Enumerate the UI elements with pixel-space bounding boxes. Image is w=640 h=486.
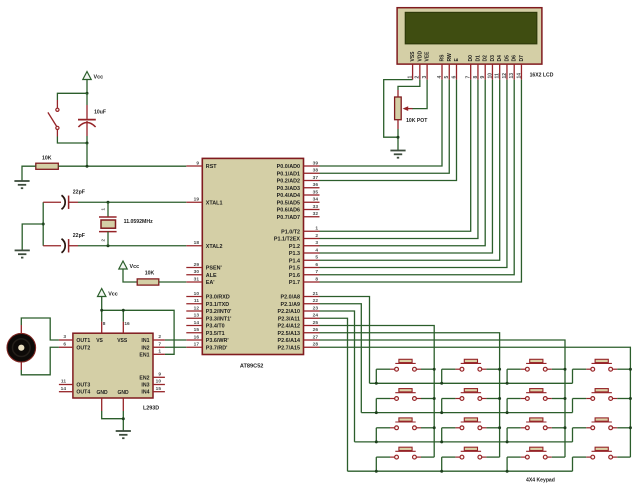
svg-text:P0.2/AD2: P0.2/AD2 (277, 179, 300, 185)
svg-text:Vcc: Vcc (94, 75, 104, 81)
svg-text:8: 8 (315, 276, 318, 282)
svg-text:6: 6 (315, 262, 318, 268)
svg-text:P2.4/A12: P2.4/A12 (278, 324, 300, 330)
svg-text:5: 5 (444, 76, 450, 79)
svg-text:23: 23 (313, 305, 319, 311)
svg-text:XTAL1: XTAL1 (206, 200, 223, 206)
svg-text:OUT2: OUT2 (76, 345, 90, 351)
svg-text:D2: D2 (483, 55, 489, 62)
svg-text:D7: D7 (519, 55, 525, 62)
svg-text:P1.0/T2: P1.0/T2 (281, 229, 300, 235)
svg-text:14: 14 (194, 320, 200, 326)
svg-text:P3.1/TXD: P3.1/TXD (206, 302, 229, 308)
svg-text:EN1: EN1 (139, 352, 149, 358)
svg-text:P2.2/A10: P2.2/A10 (278, 309, 300, 315)
svg-text:39: 39 (313, 160, 319, 166)
svg-text:10: 10 (194, 291, 200, 297)
svg-text:1: 1 (315, 226, 318, 232)
svg-text:IN4: IN4 (141, 390, 149, 396)
svg-text:11.0592MHz: 11.0592MHz (124, 219, 154, 225)
svg-text:10K: 10K (42, 156, 52, 162)
svg-text:VDD: VDD (417, 51, 423, 62)
svg-text:P3.4/T0: P3.4/T0 (206, 324, 225, 330)
svg-text:8: 8 (473, 76, 479, 79)
svg-text:P1.1/T2EX: P1.1/T2EX (274, 237, 300, 243)
svg-text:8: 8 (103, 321, 106, 327)
svg-text:P3.0/RXD: P3.0/RXD (206, 295, 230, 301)
svg-text:VSS: VSS (117, 338, 128, 344)
svg-text:D1: D1 (475, 55, 481, 62)
svg-text:12: 12 (502, 73, 508, 79)
svg-text:16X2 LCD: 16X2 LCD (530, 73, 554, 79)
svg-text:D6: D6 (512, 55, 518, 62)
svg-text:GND: GND (118, 390, 130, 396)
svg-text:3: 3 (315, 240, 318, 246)
svg-text:29: 29 (194, 262, 200, 268)
svg-text:22pF: 22pF (73, 233, 85, 239)
svg-text:26: 26 (313, 327, 319, 333)
svg-text:9: 9 (480, 76, 486, 79)
svg-text:GND: GND (97, 390, 109, 396)
svg-text:P1.6: P1.6 (289, 273, 300, 279)
svg-text:37: 37 (313, 175, 319, 181)
svg-text:L293D: L293D (143, 406, 159, 412)
svg-text:9: 9 (158, 372, 161, 378)
svg-text:5: 5 (315, 255, 318, 261)
svg-text:11: 11 (495, 73, 501, 79)
svg-text:6: 6 (63, 341, 66, 347)
svg-text:22: 22 (313, 298, 319, 304)
svg-text:XTAL2: XTAL2 (206, 244, 223, 250)
svg-text:IN2: IN2 (141, 345, 149, 351)
svg-text:VEE: VEE (425, 51, 431, 62)
svg-text:P3.7/RD': P3.7/RD' (206, 345, 228, 351)
svg-text:EN2: EN2 (139, 375, 149, 381)
svg-text:P0.3/AD3: P0.3/AD3 (277, 186, 300, 192)
svg-text:1: 1 (407, 76, 413, 79)
svg-text:Vcc: Vcc (108, 292, 118, 298)
svg-text:VSS: VSS (410, 51, 416, 62)
svg-text:11: 11 (194, 298, 199, 304)
svg-text:7: 7 (158, 341, 161, 347)
svg-text:12: 12 (194, 305, 200, 311)
svg-text:36: 36 (313, 182, 319, 188)
svg-text:P1.4: P1.4 (289, 258, 300, 264)
svg-text:P0.4/AD4: P0.4/AD4 (277, 193, 300, 199)
svg-text:22pF: 22pF (73, 190, 85, 196)
svg-text:18: 18 (194, 240, 200, 246)
svg-text:3: 3 (63, 334, 66, 340)
svg-text:3: 3 (422, 76, 428, 79)
svg-text:2: 2 (415, 76, 421, 79)
svg-text:7: 7 (315, 269, 318, 275)
svg-text:P1.5: P1.5 (289, 266, 300, 272)
svg-text:11: 11 (61, 379, 66, 385)
svg-text:4: 4 (437, 76, 443, 79)
svg-text:28: 28 (313, 342, 319, 348)
svg-text:25: 25 (313, 320, 319, 326)
svg-text:31: 31 (194, 276, 200, 282)
svg-text:13: 13 (509, 73, 515, 79)
svg-text:Vcc: Vcc (130, 264, 140, 270)
svg-text:AT89C52: AT89C52 (240, 364, 264, 370)
svg-text:D3: D3 (490, 55, 496, 62)
svg-text:14: 14 (516, 73, 522, 79)
svg-text:34: 34 (313, 197, 319, 203)
svg-text:10K: 10K (145, 271, 155, 277)
svg-text:2: 2 (158, 334, 161, 340)
svg-text:D5: D5 (504, 55, 510, 62)
svg-text:13: 13 (194, 313, 200, 319)
svg-text:2: 2 (315, 233, 318, 239)
svg-text:P1.7: P1.7 (289, 280, 300, 286)
svg-text:15: 15 (156, 386, 162, 392)
svg-text:IN3: IN3 (141, 383, 149, 389)
svg-text:16: 16 (124, 321, 130, 327)
svg-text:24: 24 (313, 313, 319, 319)
svg-text:P2.6/A14: P2.6/A14 (278, 338, 300, 344)
svg-text:P2.7/A15: P2.7/A15 (278, 345, 300, 351)
svg-text:30: 30 (194, 269, 200, 275)
svg-text:P1.3: P1.3 (289, 251, 300, 257)
svg-text:4X4 Keypad: 4X4 Keypad (526, 478, 555, 484)
svg-text:P0.1/AD1: P0.1/AD1 (277, 171, 300, 177)
svg-text:4: 4 (315, 247, 318, 253)
svg-text:10uF: 10uF (94, 110, 106, 116)
svg-text:10: 10 (156, 379, 162, 385)
svg-text:10K POT: 10K POT (406, 118, 428, 124)
svg-text:16: 16 (194, 334, 200, 340)
svg-text:33: 33 (313, 204, 319, 210)
svg-text:RW: RW (447, 53, 453, 62)
svg-text:RST: RST (206, 164, 217, 170)
svg-text:P3.6/WR': P3.6/WR' (206, 338, 229, 344)
svg-text:ALE: ALE (206, 273, 217, 279)
svg-text:PSEN': PSEN' (206, 266, 222, 272)
svg-text:VS: VS (96, 338, 103, 344)
svg-text:P1.2: P1.2 (289, 244, 300, 250)
svg-text:32: 32 (313, 211, 319, 217)
svg-text:OUT3: OUT3 (76, 383, 90, 389)
svg-text:19: 19 (194, 197, 200, 203)
svg-text:OUT4: OUT4 (76, 390, 90, 396)
svg-text:RS: RS (440, 54, 446, 62)
svg-text:OUT1: OUT1 (76, 338, 90, 344)
svg-text:7: 7 (466, 76, 472, 79)
svg-text:10: 10 (487, 73, 493, 79)
svg-text:15: 15 (194, 327, 200, 333)
svg-text:P2.1/A9: P2.1/A9 (281, 302, 300, 308)
svg-text:1: 1 (158, 349, 161, 355)
svg-text:D0: D0 (468, 55, 474, 62)
svg-text:EA': EA' (206, 280, 215, 286)
svg-text:P2.5/A13: P2.5/A13 (278, 331, 300, 337)
svg-text:P0.7/AD7: P0.7/AD7 (277, 215, 300, 221)
svg-text:P0.5/AD5: P0.5/AD5 (277, 200, 300, 206)
svg-text:14: 14 (61, 386, 67, 392)
svg-text:P2.3/A11: P2.3/A11 (278, 316, 300, 322)
svg-text:IN1: IN1 (141, 338, 149, 344)
svg-text:17: 17 (194, 342, 200, 348)
svg-text:P3.5/T1: P3.5/T1 (206, 331, 225, 337)
svg-text:P0.6/AD6: P0.6/AD6 (277, 208, 300, 214)
svg-text:38: 38 (313, 168, 319, 174)
svg-text:P3.3/INT1': P3.3/INT1' (206, 316, 232, 322)
svg-text:6: 6 (451, 76, 457, 79)
svg-text:D4: D4 (497, 55, 503, 62)
svg-text:35: 35 (313, 189, 319, 195)
svg-text:P3.2/INT0': P3.2/INT0' (206, 309, 232, 315)
svg-text:P2.0/A8: P2.0/A8 (281, 295, 300, 301)
svg-text:P0.0/AD0: P0.0/AD0 (277, 164, 300, 170)
svg-text:21: 21 (313, 291, 319, 297)
svg-text:27: 27 (313, 334, 319, 340)
svg-text:9: 9 (196, 160, 199, 166)
